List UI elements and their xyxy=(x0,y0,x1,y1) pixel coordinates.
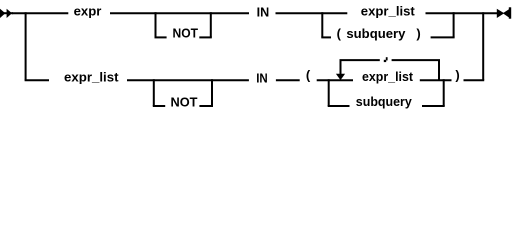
loop down arrowhead xyxy=(336,74,345,80)
wire: NOT-C left vertical xyxy=(153,79,155,106)
wire: subq-A right stub xyxy=(431,36,455,38)
svg-text:subquery: subquery xyxy=(356,94,413,109)
svg-text:(: ( xyxy=(306,68,311,83)
wire: row C inside parens, right part xyxy=(420,79,452,81)
svg-text:IN: IN xyxy=(256,70,268,85)
railroad syntax diagram: [NOT] IN condition xyxy=(0,0,523,122)
wire: row C inside parens, left part xyxy=(317,79,353,81)
wire: loop right vertical xyxy=(438,60,440,80)
wire: row C left corner horizontal xyxy=(25,79,49,81)
wire: row A main line to expr xyxy=(12,12,68,14)
wire: subq-A left vertical xyxy=(321,12,323,37)
wire: NOT-C right vertical xyxy=(211,79,213,106)
wire: row A after expr xyxy=(110,12,249,14)
wire: row C to right corner xyxy=(464,79,485,81)
svg-text:expr_list: expr_list xyxy=(362,69,414,84)
wire: row C after expr_list xyxy=(127,79,249,81)
end symbol (facing arrowheads + bar) xyxy=(497,9,504,18)
svg-text:): ) xyxy=(416,26,420,41)
svg-text:NOT: NOT xyxy=(173,25,199,40)
svg-text:expr_list: expr_list xyxy=(64,69,119,84)
wire: branch junction vertical to row C xyxy=(25,12,27,80)
wire: loop top line left xyxy=(340,59,380,61)
wire: NOT-C left stub xyxy=(153,105,165,107)
svg-text:expr_list: expr_list xyxy=(361,4,416,19)
wire: subq-A right vertical xyxy=(453,12,455,37)
wire: subq-C left vertical xyxy=(328,79,330,106)
wire: NOT-A left vertical xyxy=(155,12,157,37)
wire: subq-A left stub xyxy=(321,36,331,38)
start symbol (double arrowheads) xyxy=(0,12,13,14)
wire: NOT-A right vertical xyxy=(210,12,212,37)
wire: NOT-A left stub xyxy=(155,36,167,38)
wire: NOT-C right stub xyxy=(199,105,213,107)
svg-text:NOT: NOT xyxy=(171,95,198,110)
wire: row C rejoin vertical (right) xyxy=(482,12,484,80)
svg-text:expr: expr xyxy=(74,3,102,18)
wire: loop left vertical xyxy=(340,60,342,74)
node , comma separator xyxy=(386,57,388,60)
wire: NOT-A right stub xyxy=(199,36,212,38)
wire: row A after expr_list to end xyxy=(426,12,498,14)
svg-text:IN: IN xyxy=(257,4,270,19)
wire: subq-C right stub xyxy=(422,105,445,107)
svg-text:(: ( xyxy=(337,26,342,41)
wire: row C after IN xyxy=(276,79,300,81)
wire: row A after IN xyxy=(276,12,348,14)
wire: subq-C right vertical xyxy=(443,79,445,106)
svg-text:): ) xyxy=(455,68,459,83)
svg-text:subquery: subquery xyxy=(346,26,406,41)
wire: subq-C left stub xyxy=(328,105,350,107)
wire: loop top line right xyxy=(392,59,440,61)
